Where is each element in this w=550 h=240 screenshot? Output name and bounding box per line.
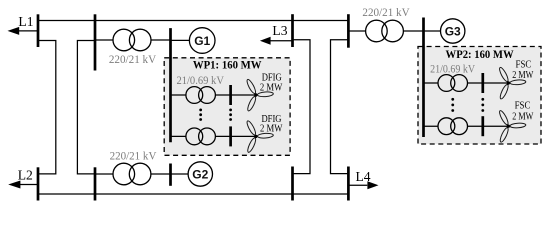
wind park box WP1	[164, 58, 290, 156]
svg-text:FSC: FSC	[515, 101, 531, 112]
busbar 2 (top left, T1 HV)	[94, 14, 97, 70]
svg-text:L1: L1	[18, 14, 33, 29]
svg-text:G3: G3	[445, 24, 461, 38]
svg-text:2 MW: 2 MW	[512, 111, 534, 122]
wire: WP2 row 2 collector	[424, 125, 509, 127]
generator G1	[189, 28, 215, 54]
busbar G2 21 kV	[169, 164, 172, 186]
busbar WP1 row 1 LV node	[229, 85, 232, 105]
ellipsis dots WP1	[199, 109, 232, 121]
busbar 7 (bottom right)	[291, 167, 294, 201]
svg-text:FSC: FSC	[516, 60, 532, 71]
svg-text:220/21 kV: 220/21 kV	[110, 150, 157, 162]
transformer WP1 row1 21/0.69 kV (two overlapping circles)	[186, 87, 216, 104]
wire: transformer T2 to G2 bus	[151, 173, 171, 175]
wire: bus4 to transformer T3	[348, 30, 365, 32]
svg-text:WP1: 160 MW: WP1: 160 MW	[193, 58, 262, 72]
busbar WP2 row 2 LV node	[481, 116, 484, 136]
wind park box WP2	[418, 47, 541, 145]
busbar 5 (bottom left, L2)	[37, 167, 40, 200]
load arrow L1	[8, 14, 39, 35]
busbar 8 (bottom right, L4)	[347, 167, 350, 201]
ellipsis dots WP2	[451, 98, 484, 112]
busbar G3 / WP2 collector 21 kV	[422, 18, 425, 138]
transformer T3 220/21 kV (G3) (two overlapping circles)	[366, 20, 404, 42]
busbar 6 (bottom left, T2 HV)	[94, 167, 97, 200]
busbar 4 (top right, T3 HV)	[347, 14, 350, 48]
busbar G1 / WP1 collector 21 kV	[169, 28, 172, 142]
transformer WP2 row2 21/0.69 kV (two overlapping circles)	[438, 118, 468, 135]
wire: bottom tie line	[38, 193, 348, 195]
svg-text:2 MW: 2 MW	[260, 82, 283, 93]
wire: transformer T1 to G1 bus	[151, 39, 171, 41]
generator G3	[441, 19, 465, 43]
wire: WP1 row 1 collector	[171, 94, 256, 96]
wire: WP2 row 1 collector	[424, 82, 509, 84]
transformer T2 220/21 kV (G2) (two overlapping circles)	[113, 163, 151, 185]
wire: bus2b to transformer T2	[95, 173, 113, 175]
svg-text:21/0.69 kV: 21/0.69 kV	[430, 64, 476, 76]
wire: transformer T3 to G3 bus	[403, 30, 423, 32]
busbar WP1 row 2 LV node	[229, 126, 232, 146]
svg-text:2 MW: 2 MW	[512, 70, 534, 81]
wind turbine WP1 DFIG 1	[246, 78, 274, 111]
busbar 3 (top right, L3)	[291, 14, 294, 47]
wire: bus2 to transformer T1	[95, 39, 113, 41]
busbar 1 (top left, L1)	[37, 14, 40, 47]
svg-text:L3: L3	[272, 23, 287, 38]
svg-text:220/21 kV: 220/21 kV	[362, 7, 410, 19]
transformer WP1 row2 21/0.69 kV (two overlapping circles)	[186, 128, 216, 145]
generator G2	[188, 162, 212, 186]
wire: G3 bus to generator G3	[424, 30, 441, 32]
wire: right feeder 1 (bus3 top to bus3 bottom)	[293, 40, 311, 174]
busbar WP2 row 1 LV node	[481, 73, 484, 93]
svg-text:2 MW: 2 MW	[260, 123, 283, 134]
wire: left feeder 1 (bus1 top to bus1 bottom)	[38, 41, 56, 174]
wind turbine WP2 FSC 2	[498, 110, 526, 143]
svg-text:L4: L4	[356, 169, 371, 184]
wind turbine WP2 FSC 1	[498, 66, 526, 99]
svg-text:220/21 kV: 220/21 kV	[109, 54, 157, 66]
wind turbine WP1 DFIG 2	[246, 120, 274, 153]
wire: WP1 row 2 collector	[171, 135, 256, 137]
wire: left feeder 2 (bus2 top to bus2 bottom)	[77, 41, 95, 174]
svg-text:WP2: 160 MW: WP2: 160 MW	[446, 47, 514, 61]
load arrow L2	[8, 168, 38, 189]
svg-text:G2: G2	[192, 167, 208, 181]
wire: G2 bus to generator G2	[171, 173, 189, 175]
load arrow L4	[348, 169, 378, 189]
svg-text:G1: G1	[194, 34, 210, 48]
load arrow L3	[260, 23, 293, 45]
transformer T1 220/21 kV (G1) (two overlapping circles)	[113, 29, 151, 51]
transformer WP2 row1 21/0.69 kV (two overlapping circles)	[438, 75, 468, 92]
svg-text:21/0.69 kV: 21/0.69 kV	[176, 75, 224, 87]
wire: right feeder 2 (bus4 top to bus4 bottom)	[331, 40, 349, 174]
svg-text:L2: L2	[18, 168, 33, 183]
wire: G1 bus to generator G1	[171, 39, 190, 41]
wire: top tie line	[38, 20, 348, 22]
